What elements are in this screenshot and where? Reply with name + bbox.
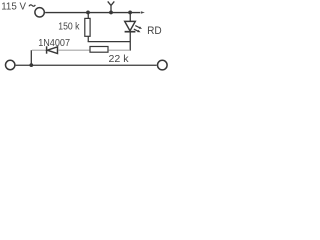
wire: diode anode to R2 left (faint) [58,49,89,51]
LED D2 cathode bar [125,31,136,33]
junction dot on bottom rail [29,63,33,67]
svg-text:115 V: 115 V [1,2,26,13]
AC tilde symbol [29,5,35,6]
wire: top rail [45,12,140,14]
LED light-emission arrows [134,26,142,33]
diode D1 cathode bar [46,46,48,53]
Y fork connector to external circuit [108,1,115,12]
resistor R1 150k (vertical box) [87,12,89,18]
LED D2 triangle [125,21,136,30]
wire: corner to diode cathode (faint) [32,49,46,51]
resistor R2 22k (horizontal box) [90,47,108,53]
junction dot at Y fork [109,11,113,15]
LED D2: anode stub [129,12,131,21]
terminal bottom-left [6,60,15,69]
wire: LED cathode to R2 right (faint) [109,49,130,51]
diode D1 triangle [47,47,57,54]
svg-text:1N4007: 1N4007 [38,38,70,49]
arrowhead: top rail continuation [141,11,145,13]
junction dot at R1 top [86,11,90,15]
junction dot at LED anode [128,11,132,15]
wire: bottom rail [16,64,157,66]
svg-text:RD: RD [147,25,162,37]
wire: LED cathode down [129,31,131,51]
wire: R1 bottom to LED cathode line [88,41,131,43]
wire: diode branch vertical to bottom rail [30,50,32,65]
svg-text:22 k: 22 k [109,54,130,65]
terminal bottom-right [158,60,168,70]
terminal top-left (115V line) [35,8,44,17]
svg-text:150 k: 150 k [58,21,80,32]
